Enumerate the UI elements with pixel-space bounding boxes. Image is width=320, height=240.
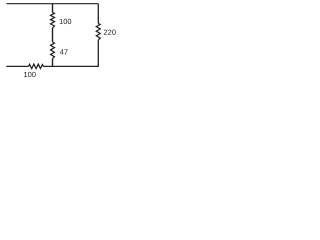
value label 47 for R2: [60, 49, 68, 54]
wire bottom rail left segment: [6, 65, 28, 67]
resistor R1 100 (middle top, vertical zigzag): [51, 12, 55, 28]
wire right branch bottom stub: [97, 40, 99, 66]
wire middle connector between R1 and R2: [52, 28, 54, 42]
wire bottom rail right segment: [43, 65, 99, 67]
wire top rail: [7, 3, 99, 5]
value label 100 for R4: [24, 72, 36, 77]
wire middle branch top stub: [52, 4, 54, 13]
wire middle branch bottom stub: [52, 59, 54, 67]
wire right branch top stub: [97, 4, 99, 24]
resistor R4 100 (bottom, horizontal zigzag): [29, 64, 44, 69]
value label 100 for R1: [60, 19, 72, 24]
resistor R2 47 (middle bottom, vertical zigzag): [51, 42, 55, 59]
value label 220 for R3: [104, 30, 116, 35]
resistor R3 220 (right, vertical zigzag): [96, 23, 100, 40]
